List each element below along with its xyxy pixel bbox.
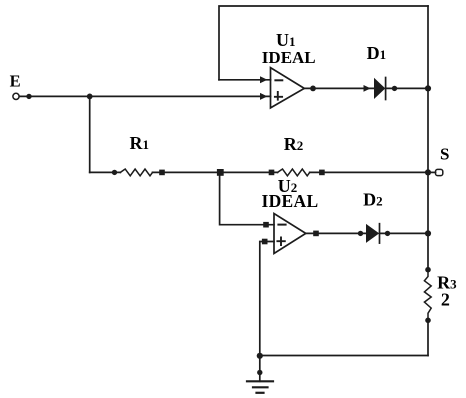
wire feedback loop top xyxy=(219,6,428,80)
svg-text:R2: R2 xyxy=(284,134,304,154)
wire R1/R2 horizontal line xyxy=(90,171,425,173)
terminal S xyxy=(425,169,431,175)
svg-text:IDEAL: IDEAL xyxy=(262,191,319,211)
pin arrowhead U1 minus xyxy=(260,76,267,83)
wire D2 cathode to bus xyxy=(380,232,429,234)
resistor R2 xyxy=(278,169,310,176)
svg-text:D1: D1 xyxy=(367,43,387,63)
node B junction square xyxy=(217,169,224,176)
junction square at U2 plus input xyxy=(262,239,268,245)
dot before D2 xyxy=(358,231,363,236)
pin arrowhead before D1 xyxy=(364,85,371,92)
output dot U1 xyxy=(310,86,316,92)
svg-text:2: 2 xyxy=(441,289,450,309)
diode D2 xyxy=(366,224,379,243)
svg-text:R1: R1 xyxy=(130,133,150,153)
resistor R1 xyxy=(120,169,152,176)
svg-text:D2: D2 xyxy=(363,189,383,209)
junction dot bottom rail xyxy=(257,353,263,359)
wire node B down to U2 minus xyxy=(220,172,274,224)
wire right vertical bus xyxy=(427,6,429,356)
junction dot on E wire xyxy=(26,94,31,99)
wire D1 cathode to bus xyxy=(386,87,428,89)
junction dot D2 bus xyxy=(425,230,431,236)
ground xyxy=(259,356,261,382)
op-amp U1 xyxy=(271,68,305,108)
op-amp U2 xyxy=(274,214,306,254)
junction square at U2 minus input xyxy=(263,222,269,228)
pin arrowhead U1 plus xyxy=(260,93,267,100)
diode D1 xyxy=(374,78,385,99)
terminal E xyxy=(13,93,19,99)
dot after D1 xyxy=(392,86,397,91)
node A junction dot xyxy=(87,94,93,100)
wire U2 plus input from ground rail xyxy=(260,242,274,356)
junction dot D1 bus xyxy=(425,85,431,91)
wire bottom rail xyxy=(260,355,428,357)
dot after D2 xyxy=(385,231,390,236)
output square U2 xyxy=(313,231,319,237)
wire node A down to R1 line xyxy=(89,96,91,172)
svg-text:IDEAL: IDEAL xyxy=(262,48,316,67)
wire U1 minus input xyxy=(219,79,271,81)
svg-text:S: S xyxy=(440,145,449,164)
resistor R3 xyxy=(424,270,431,320)
wire E to U1 plus input xyxy=(19,95,270,97)
wire U1 output to D1 xyxy=(304,87,374,89)
svg-text:E: E xyxy=(10,72,21,91)
wire U2 output to D2 xyxy=(306,232,366,234)
